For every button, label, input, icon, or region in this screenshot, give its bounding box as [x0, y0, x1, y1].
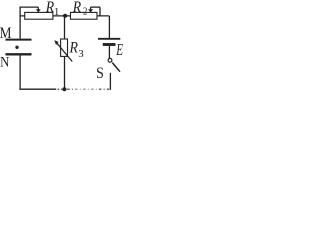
svg-text:R: R [45, 0, 54, 16]
wire: battery to switch [108, 46, 110, 59]
battery E negative plate (short thick) [103, 43, 116, 46]
wire: R1 slider hook horizontal [20, 6, 39, 8]
wire: top main horizontal bus [20, 15, 109, 17]
R3 variable arrowhead [54, 40, 58, 45]
svg-text:M: M [0, 25, 12, 42]
battery E positive plate (long) [98, 38, 120, 40]
capacitor plate N (bottom) [6, 53, 32, 55]
wire: bottom bus small dash 1 [58, 88, 60, 90]
svg-text:3: 3 [78, 48, 84, 60]
wire: left vertical from plate N to bottom bus [19, 56, 21, 90]
wire: middle branch upper (junction to R3) [64, 16, 66, 39]
capacitor plate M (top) [6, 39, 32, 41]
wire: middle branch lower (R3 to bottom bus) [64, 56, 66, 89]
R2 slider arrow shaft [90, 7, 92, 10]
R2 slider arrowhead [88, 9, 93, 12]
wire: right vertical bus down to battery [108, 16, 110, 38]
switch S lever (open, down-right) [112, 63, 120, 72]
R1 slider arrow shaft [37, 7, 39, 10]
resistor R3 (vertical box) [61, 39, 68, 56]
wire: switch lower stub down to bottom bus [109, 73, 111, 90]
svg-text:N: N [0, 55, 9, 71]
switch S pivot circle [108, 58, 112, 62]
resistor R2 (rheostat box) [71, 12, 98, 19]
wire: R2 slider hook vertical to bus [99, 7, 101, 16]
wire: left vertical (slider hook corner down to capacitor plate M) [19, 7, 21, 39]
R1 slider arrowhead [36, 9, 41, 12]
wire: bottom bus dash-dot right section [67, 88, 74, 90]
svg-text:2: 2 [83, 6, 87, 18]
charged particle between plates [15, 46, 18, 49]
resistor R1 (rheostat box) [25, 12, 53, 19]
svg-text:S: S [96, 66, 104, 83]
svg-text:R: R [69, 39, 78, 56]
wire: bottom bus dash-dot middle (faint) [75, 88, 99, 90]
svg-text:R: R [72, 0, 81, 16]
wire: bottom bus small dash 2 [61, 88, 62, 90]
svg-text:E: E [115, 41, 123, 60]
node: bottom junction dot [62, 87, 66, 91]
node: junction dot on top bus [63, 14, 67, 18]
svg-text:1: 1 [54, 6, 60, 18]
wire: R2 slider hook horizontal [91, 6, 100, 8]
wire: bottom bus dash-dot near right corner [99, 88, 110, 90]
R3 variable arrow shaft [57, 43, 72, 61]
wire: bottom bus solid left section [19, 88, 56, 90]
